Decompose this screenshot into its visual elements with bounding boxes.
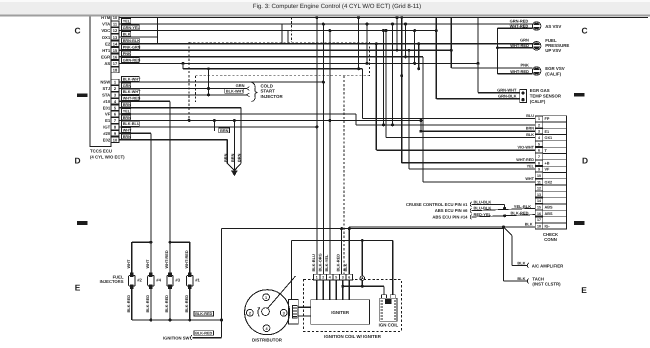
svg-text:17: 17 xyxy=(113,61,118,66)
svg-text:RED-YEL: RED-YEL xyxy=(474,212,492,217)
svg-text:ABS ECU PIN #6: ABS ECU PIN #6 xyxy=(435,208,468,213)
svg-text:10: 10 xyxy=(113,137,118,142)
svg-text:2: 2 xyxy=(322,276,324,280)
svg-text:8: 8 xyxy=(538,161,540,165)
svg-text:6: 6 xyxy=(538,149,540,153)
svg-text:GRN-WHT: GRN-WHT xyxy=(497,88,517,93)
svg-text:E1: E1 xyxy=(105,118,111,123)
svg-text:BLK-BLU: BLK-BLU xyxy=(123,122,140,126)
svg-text:#2: #2 xyxy=(137,278,142,283)
svg-text:IG-: IG- xyxy=(545,225,551,229)
svg-text:7: 7 xyxy=(538,155,540,159)
svg-text:BLK-RED: BLK-RED xyxy=(126,295,131,313)
svg-text:WHT-RED: WHT-RED xyxy=(510,43,529,48)
svg-text:Fig. 3: Computer Engine Contro: Fig. 3: Computer Engine Control (4 CYL W… xyxy=(253,3,421,10)
svg-text:GRN: GRN xyxy=(123,84,132,88)
svg-text:IGN COIL: IGN COIL xyxy=(379,323,399,328)
svg-text:15: 15 xyxy=(113,48,118,53)
svg-text:AS VSV: AS VSV xyxy=(545,24,561,29)
svg-text:1: 1 xyxy=(538,117,540,121)
svg-text:C: C xyxy=(581,26,587,36)
svg-text:BLK-WHT: BLK-WHT xyxy=(226,89,244,93)
svg-text:A/C AMPLIFIER: A/C AMPLIFIER xyxy=(532,263,564,268)
svg-text:WHT-RED: WHT-RED xyxy=(184,250,189,268)
svg-text:D: D xyxy=(582,155,588,165)
svg-text:EGR GAS: EGR GAS xyxy=(530,88,550,93)
svg-text:BLU: BLU xyxy=(526,114,534,118)
svg-text:IGNITION COIL W/ IGNITER: IGNITION COIL W/ IGNITER xyxy=(324,334,382,339)
svg-text:YEL: YEL xyxy=(527,164,535,168)
svg-text:E: E xyxy=(581,285,587,295)
svg-text:14: 14 xyxy=(537,199,541,203)
svg-text:OX1: OX1 xyxy=(545,136,553,140)
svg-text:CHECK: CHECK xyxy=(543,232,559,237)
svg-text:BLK: BLK xyxy=(343,263,348,271)
svg-text:2: 2 xyxy=(538,123,540,127)
svg-text:17: 17 xyxy=(537,218,541,222)
svg-text:YEL-BLK: YEL-BLK xyxy=(514,204,531,209)
svg-text:BLK: BLK xyxy=(525,222,533,226)
svg-text:WHT-RED: WHT-RED xyxy=(510,24,529,29)
svg-text:GRN: GRN xyxy=(236,83,245,88)
svg-text:9: 9 xyxy=(538,168,540,172)
svg-text:VF: VF xyxy=(105,112,111,117)
svg-text:BLK: BLK xyxy=(526,133,534,137)
svg-text:STJ: STJ xyxy=(103,86,111,91)
svg-text:18: 18 xyxy=(113,68,118,73)
svg-text:BRN: BRN xyxy=(223,153,228,162)
svg-text:#3: #3 xyxy=(175,278,180,283)
svg-text:VDC: VDC xyxy=(101,28,110,33)
svg-text:IGT: IGT xyxy=(103,125,110,130)
svg-text:E: E xyxy=(75,282,81,292)
svg-text:BRN: BRN xyxy=(526,127,534,131)
svg-text:UP VSV: UP VSV xyxy=(545,48,561,53)
svg-text:5: 5 xyxy=(335,276,337,280)
svg-text:BLK-ORG: BLK-ORG xyxy=(317,253,322,271)
svg-text:BLK-RED: BLK-RED xyxy=(336,254,341,272)
svg-text:1: 1 xyxy=(316,276,318,280)
svg-text:#4: #4 xyxy=(156,278,161,283)
svg-text:10: 10 xyxy=(537,174,541,178)
svg-text:CRUISE CONTROL ECU PIN #1: CRUISE CONTROL ECU PIN #1 xyxy=(406,202,468,207)
svg-text:WHT-RED: WHT-RED xyxy=(510,69,529,74)
svg-text:(INST CLSTR): (INST CLSTR) xyxy=(532,282,561,287)
svg-text:WHT-RED: WHT-RED xyxy=(516,158,534,162)
svg-text:E02: E02 xyxy=(103,137,111,142)
svg-text:NSW: NSW xyxy=(100,80,110,85)
svg-text:BLK-RED: BLK-RED xyxy=(184,295,189,313)
svg-text:18: 18 xyxy=(537,224,541,228)
svg-text:HT1: HT1 xyxy=(102,48,111,53)
svg-text:5: 5 xyxy=(538,142,540,146)
svg-text:GRN-YEL: GRN-YEL xyxy=(123,26,141,30)
svg-text:PNK: PNK xyxy=(520,63,529,68)
svg-text:BLK: BLK xyxy=(517,276,525,281)
svg-text:WHT: WHT xyxy=(145,259,150,268)
svg-text:AS: AS xyxy=(104,61,110,66)
svg-text:BRN-BLK: BRN-BLK xyxy=(123,39,141,43)
svg-text:YEL: YEL xyxy=(123,109,131,113)
svg-text:EGR: EGR xyxy=(101,54,110,59)
svg-text:#20: #20 xyxy=(103,131,111,136)
svg-text:BLK-RED: BLK-RED xyxy=(511,210,529,215)
svg-text:E1: E1 xyxy=(545,130,550,134)
svg-text:BLK-WHT: BLK-WHT xyxy=(123,90,141,94)
svg-text:DISTRIBUTOR: DISTRIBUTOR xyxy=(252,337,283,342)
svg-text:GRN-RED: GRN-RED xyxy=(123,59,141,63)
svg-text:WHT: WHT xyxy=(525,177,534,181)
svg-text:3: 3 xyxy=(342,276,344,280)
svg-text:BLK-WHT: BLK-WHT xyxy=(123,77,141,81)
svg-text:(4 CYL W/O ECT): (4 CYL W/O ECT) xyxy=(90,155,125,160)
svg-text:4: 4 xyxy=(538,136,540,140)
svg-text:ABS ECU PIN #14: ABS ECU PIN #14 xyxy=(432,215,468,220)
svg-text:BRN: BRN xyxy=(237,153,242,162)
svg-text:C: C xyxy=(74,26,80,36)
svg-text:E2: E2 xyxy=(105,41,111,46)
svg-text:STA: STA xyxy=(102,93,110,98)
svg-text:INJECTOR: INJECTOR xyxy=(261,94,284,99)
svg-text:FP: FP xyxy=(545,117,550,121)
svg-text:VF: VF xyxy=(545,168,551,172)
svg-text:PNK: PNK xyxy=(123,52,131,56)
svg-text:E01: E01 xyxy=(103,105,111,110)
svg-text:GRN-BLK: GRN-BLK xyxy=(498,94,517,99)
svg-text:2: 2 xyxy=(249,312,251,316)
svg-text:(CALIF): (CALIF) xyxy=(545,71,561,76)
svg-text:BLU-BLK: BLU-BLK xyxy=(474,199,492,204)
svg-text:BLK-BLU: BLK-BLU xyxy=(311,254,316,271)
svg-text:BLK-YEL: BLK-YEL xyxy=(324,254,329,271)
svg-text:OX1: OX1 xyxy=(102,35,111,40)
svg-text:WHT-RED: WHT-RED xyxy=(164,250,169,268)
svg-text:1: 1 xyxy=(265,296,267,300)
svg-text:14: 14 xyxy=(113,41,118,46)
svg-text:(CALIF): (CALIF) xyxy=(530,99,546,104)
svg-text:BLK-RED: BLK-RED xyxy=(195,332,212,336)
svg-text:WHT-RED: WHT-RED xyxy=(123,97,141,101)
svg-text:TEMP SENSOR: TEMP SENSOR xyxy=(530,94,562,99)
svg-text:3: 3 xyxy=(283,312,285,316)
svg-text:6: 6 xyxy=(348,276,350,280)
svg-text:BRN: BRN xyxy=(220,129,228,133)
svg-text:12: 12 xyxy=(113,28,118,33)
svg-text:BLK-RED: BLK-RED xyxy=(195,312,212,316)
svg-text:12: 12 xyxy=(537,187,541,191)
svg-text:TCCS ECU: TCCS ECU xyxy=(90,149,112,154)
svg-text:ABS: ABS xyxy=(545,212,553,216)
svg-text:INJECTORS: INJECTORS xyxy=(100,279,124,284)
svg-text:ABS: ABS xyxy=(545,206,553,210)
svg-text:VTA: VTA xyxy=(102,22,110,27)
svg-text:13: 13 xyxy=(113,35,118,40)
svg-text:13: 13 xyxy=(537,193,541,197)
svg-text:OX2: OX2 xyxy=(545,180,553,184)
svg-text:16: 16 xyxy=(537,212,541,216)
svg-text:+B: +B xyxy=(545,161,550,165)
svg-text:BLK: BLK xyxy=(123,32,131,36)
svg-text:GRN: GRN xyxy=(520,38,529,43)
svg-text:#10: #10 xyxy=(103,99,111,104)
svg-text:BLU-BLK: BLU-BLK xyxy=(474,206,492,211)
svg-text:BLK-RED: BLK-RED xyxy=(164,295,169,313)
svg-text:BRN: BRN xyxy=(123,103,131,107)
svg-text:VIO-WHT: VIO-WHT xyxy=(518,146,535,150)
svg-text:IGNITION SW: IGNITION SW xyxy=(163,335,190,340)
svg-text:D: D xyxy=(74,155,80,165)
svg-text:BRN: BRN xyxy=(123,116,131,120)
svg-text:PNK-GRN: PNK-GRN xyxy=(123,46,141,50)
svg-text:WHT: WHT xyxy=(126,259,131,268)
svg-text:BLK: BLK xyxy=(517,260,525,265)
svg-text:BLK-RED: BLK-RED xyxy=(145,295,150,313)
svg-text:BRN: BRN xyxy=(123,135,131,139)
svg-text:CONN: CONN xyxy=(544,237,557,242)
svg-text:15: 15 xyxy=(537,206,541,210)
svg-text:YEL: YEL xyxy=(123,19,131,23)
svg-text:IGNITER: IGNITER xyxy=(331,310,350,315)
svg-text:BRN: BRN xyxy=(230,153,235,162)
svg-text:WHT: WHT xyxy=(123,129,132,133)
svg-text:#1: #1 xyxy=(195,278,200,283)
svg-text:16: 16 xyxy=(113,54,118,59)
svg-text:3: 3 xyxy=(538,130,540,134)
svg-text:11: 11 xyxy=(537,180,541,184)
svg-text:4: 4 xyxy=(329,276,331,280)
